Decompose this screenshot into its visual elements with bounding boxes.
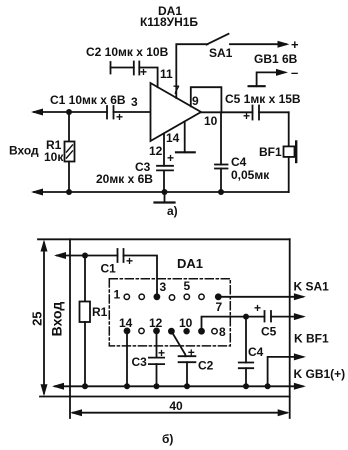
- pin 11 node: [168, 328, 175, 335]
- svg-text:C2 10мк x 10В: C2 10мк x 10В: [86, 45, 169, 59]
- pin 12 node: [153, 328, 160, 335]
- svg-text:25: 25: [30, 311, 45, 325]
- svg-text:а): а): [167, 204, 178, 218]
- capacitor C2 b: [179, 355, 196, 357]
- pin 2: [139, 294, 144, 299]
- svg-text:K GB1(+): K GB1(+): [294, 367, 346, 381]
- svg-text:+: +: [243, 109, 250, 123]
- svg-text:+: +: [188, 346, 195, 360]
- dimension 25: [43, 243, 45, 393]
- ground pin14: [176, 151, 195, 153]
- pin 13: [139, 328, 144, 333]
- wire input top: [34, 111, 107, 113]
- node C4 bottom: [218, 189, 224, 195]
- terminal arrow input b: [54, 252, 66, 259]
- wire pin7 to K SA1: [218, 296, 302, 298]
- wire ground rail b: [55, 385, 303, 387]
- svg-text:+: +: [158, 346, 165, 360]
- board outline bottom: [40, 396, 290, 398]
- pin 7 node: [215, 293, 222, 300]
- svg-text:C3: C3: [132, 355, 148, 369]
- wire pin 14 ground: [184, 122, 186, 153]
- svg-text:8: 8: [219, 325, 226, 339]
- svg-text:C4: C4: [248, 345, 264, 359]
- svg-text:11: 11: [160, 67, 173, 81]
- node C3 bottom: [162, 189, 168, 195]
- pin 14 node: [124, 328, 131, 335]
- svg-text:14: 14: [119, 316, 133, 330]
- svg-text:+: +: [167, 151, 174, 165]
- svg-text:10к: 10к: [44, 150, 64, 164]
- node rail GB1: [265, 383, 271, 389]
- capacitor C1 b: [117, 249, 119, 262]
- svg-text:BF1: BF1: [259, 145, 282, 159]
- capacitor C1: [106, 106, 108, 119]
- dimension 40: [73, 412, 287, 414]
- capacitor C4 b: [239, 362, 253, 364]
- svg-text:7: 7: [216, 300, 223, 314]
- wire pin9 up to C5 line: [202, 317, 247, 332]
- board outline right: [289, 239, 291, 418]
- speaker BF1: [284, 146, 295, 157]
- svg-text:C1 10мк x 6В: C1 10мк x 6В: [50, 93, 126, 107]
- node rail C3: [154, 383, 160, 389]
- node C4 top: [243, 314, 249, 320]
- node rail C4: [243, 383, 249, 389]
- svg-text:C5: C5: [261, 325, 277, 339]
- svg-text:9: 9: [192, 94, 199, 108]
- wire pin14 down: [126, 331, 128, 386]
- svg-text:K BF1: K BF1: [294, 332, 329, 346]
- resistor R1: [68, 112, 70, 142]
- svg-text:К118УН1Б: К118УН1Б: [140, 15, 198, 29]
- node rail C2: [184, 383, 190, 389]
- board outline left: [69, 239, 71, 418]
- svg-text:10: 10: [179, 316, 193, 330]
- svg-text:14: 14: [166, 131, 180, 145]
- wire C2 to pin 11: [139, 68, 157, 88]
- pin 6: [199, 294, 204, 299]
- wire C4 branch: [220, 112, 222, 164]
- svg-text:10: 10: [204, 114, 218, 128]
- svg-text:0,05мк: 0,05мк: [231, 168, 270, 182]
- svg-text:GB1 6В: GB1 6В: [254, 52, 298, 66]
- terminal arrow input bottom: [31, 189, 43, 196]
- capacitor C4: [215, 164, 228, 166]
- svg-text:3: 3: [160, 280, 167, 294]
- capacitor C5 b: [246, 316, 265, 318]
- pin 8: [212, 329, 217, 334]
- node rail pin14: [124, 383, 130, 389]
- wire pin12 / C3 b: [156, 331, 158, 358]
- pin 5: [184, 294, 189, 299]
- pin 3 node: [154, 293, 161, 300]
- svg-text:R1: R1: [92, 305, 108, 319]
- op-amp DA1 triangle: [151, 83, 202, 141]
- GB1 minus terminal stub: [257, 72, 285, 86]
- svg-text:7: 7: [173, 83, 180, 97]
- terminal arrow input top: [31, 109, 43, 116]
- wire C5 to K BF1: [271, 316, 303, 318]
- svg-text:–: –: [291, 65, 298, 80]
- ground stub on rail: [164, 192, 166, 203]
- pin 10 node: [183, 328, 189, 334]
- pin 1: [124, 294, 129, 299]
- svg-text:1: 1: [114, 288, 121, 302]
- pin 9 node: [198, 328, 205, 335]
- svg-text:3: 3: [131, 95, 138, 109]
- svg-text:12: 12: [149, 144, 163, 158]
- wire output pin 10: [201, 111, 253, 113]
- svg-text:Вход: Вход: [49, 302, 65, 337]
- svg-text:12: 12: [149, 316, 163, 330]
- wire bottom rail: [34, 191, 289, 193]
- wire pin11 diagonal to C2: [171, 331, 185, 356]
- resistor R1 b: [84, 256, 86, 302]
- wire C4 branch b: [245, 317, 247, 363]
- capacitor C3: [157, 165, 173, 167]
- svg-text:40: 40: [169, 399, 183, 413]
- capacitor C3 b: [149, 357, 164, 359]
- svg-text:20мк x 6В: 20мк x 6В: [96, 172, 153, 186]
- svg-text:Вход: Вход: [9, 144, 39, 158]
- node rail R1: [82, 383, 88, 389]
- wire pin 9 loop: [191, 87, 222, 112]
- svg-text:+: +: [254, 301, 261, 315]
- board outline top: [38, 238, 290, 240]
- svg-text:C1: C1: [101, 262, 117, 276]
- svg-text:DA1: DA1: [177, 256, 203, 271]
- IC outline DA1 dashdot box: [109, 279, 230, 346]
- wire pin 12 / C3 branch: [163, 134, 165, 166]
- wire input line b: [57, 255, 118, 257]
- svg-text:б): б): [162, 432, 173, 446]
- svg-text:C5 1мк x 15В: C5 1мк x 15В: [225, 92, 301, 106]
- svg-text:5: 5: [184, 279, 191, 293]
- node R1 top b: [82, 253, 88, 259]
- svg-text:K SA1: K SA1: [294, 280, 330, 294]
- svg-text:SA1: SA1: [209, 46, 233, 60]
- node R1 bottom: [66, 189, 72, 195]
- wire to BF1: [288, 112, 290, 146]
- wire C1 to pin3: [114, 111, 151, 113]
- svg-text:C2: C2: [198, 359, 214, 373]
- node input/R1 junction: [66, 109, 72, 115]
- svg-text:C4: C4: [231, 155, 247, 169]
- pin 4: [169, 295, 174, 300]
- switch SA1: [207, 34, 229, 45]
- svg-text:+: +: [291, 37, 299, 52]
- wire pin 7 to SA1: [176, 44, 207, 98]
- wire K GB1 branch: [268, 357, 303, 386]
- wire C1 to pin3 b: [124, 256, 158, 297]
